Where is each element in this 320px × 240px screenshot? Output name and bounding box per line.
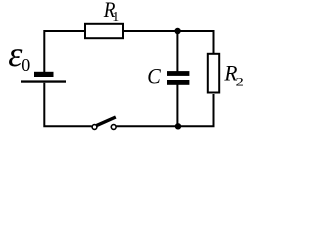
- long thin plate: [21, 80, 66, 82]
- switch left contact circle: [92, 125, 97, 130]
- svg-text:2: 2: [236, 76, 244, 89]
- switch lever: [97, 117, 116, 126]
- capacitor branch lower wire: [176, 85, 178, 127]
- wire bottom segment: [116, 94, 213, 126]
- short thick plate: [34, 72, 54, 77]
- battery EMF source: [21, 72, 66, 83]
- node junction dot bottom: [175, 123, 181, 129]
- wire left-bottom segment: [44, 83, 91, 127]
- svg-text:1: 1: [112, 10, 119, 25]
- capacitor C: [167, 71, 189, 85]
- svg-text:C: C: [147, 64, 161, 89]
- switch right contact circle: [111, 125, 116, 130]
- capacitor branch upper wire: [176, 31, 178, 72]
- resistor R2: [208, 54, 219, 93]
- wire top-right segment: [124, 31, 214, 54]
- node junction dot top: [174, 28, 180, 34]
- wire top-left segment: [44, 31, 85, 72]
- svg-text:0: 0: [21, 55, 30, 75]
- top plate: [167, 71, 189, 76]
- switch S: [92, 117, 116, 129]
- resistor R1: [85, 24, 123, 38]
- bottom plate: [167, 80, 189, 85]
